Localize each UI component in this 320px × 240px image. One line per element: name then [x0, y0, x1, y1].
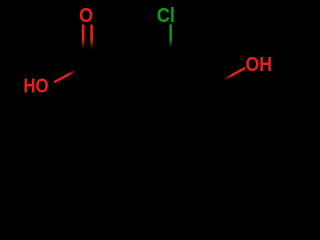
- svg-text:OH: OH: [246, 54, 273, 76]
- svg-text:Cl: Cl: [157, 5, 175, 27]
- svg-text:O: O: [79, 5, 93, 27]
- svg-text:HO: HO: [23, 75, 48, 97]
